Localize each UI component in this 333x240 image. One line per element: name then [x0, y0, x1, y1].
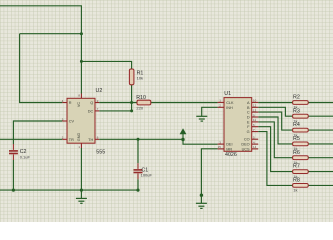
svg-text:10k: 10k: [137, 76, 143, 81]
svg-text:A: A: [247, 101, 250, 105]
svg-text:R: R: [69, 101, 72, 105]
svg-text:MR: MR: [226, 147, 232, 151]
svg-text:555: 555: [96, 150, 105, 156]
svg-text:220: 220: [136, 105, 143, 110]
svg-text:15: 15: [218, 145, 222, 149]
svg-text:DEI: DEI: [226, 143, 232, 147]
svg-text:14: 14: [253, 145, 257, 149]
svg-text:B: B: [247, 106, 250, 110]
svg-text:1k: 1k: [293, 132, 297, 137]
svg-text:100uF: 100uF: [141, 173, 153, 178]
svg-text:UCS: UCS: [242, 147, 250, 151]
svg-text:U2: U2: [96, 88, 103, 94]
svg-text:12: 12: [253, 104, 257, 108]
svg-text:R10: R10: [136, 95, 146, 101]
svg-text:R2: R2: [293, 95, 300, 101]
svg-text:CV: CV: [69, 120, 75, 124]
svg-text:TH: TH: [88, 138, 93, 142]
svg-text:1k: 1k: [293, 174, 297, 179]
svg-text:E: E: [247, 120, 250, 124]
svg-text:CLK: CLK: [226, 101, 234, 105]
svg-text:10: 10: [253, 99, 257, 103]
svg-text:TR: TR: [69, 138, 74, 142]
svg-text:1k: 1k: [293, 188, 297, 193]
svg-text:4026: 4026: [225, 152, 237, 158]
svg-text:C: C: [247, 111, 250, 115]
svg-text:11: 11: [253, 118, 256, 122]
svg-text:DEO: DEO: [241, 143, 249, 147]
svg-text:1k: 1k: [293, 118, 297, 123]
svg-text:Q: Q: [90, 101, 93, 105]
svg-text:1k: 1k: [293, 146, 297, 151]
svg-text:13: 13: [253, 108, 257, 112]
svg-text:VC: VC: [77, 102, 81, 108]
svg-text:G: G: [247, 130, 250, 134]
svg-text:U1: U1: [224, 91, 231, 97]
svg-text:CO: CO: [244, 138, 250, 142]
svg-text:0.1uF: 0.1uF: [20, 154, 31, 159]
svg-text:1k: 1k: [293, 105, 297, 110]
svg-text:D: D: [247, 116, 250, 120]
svg-text:DC: DC: [88, 109, 94, 113]
svg-text:GND: GND: [77, 133, 81, 142]
svg-text:1k: 1k: [293, 160, 297, 165]
svg-text:INH: INH: [226, 106, 233, 110]
